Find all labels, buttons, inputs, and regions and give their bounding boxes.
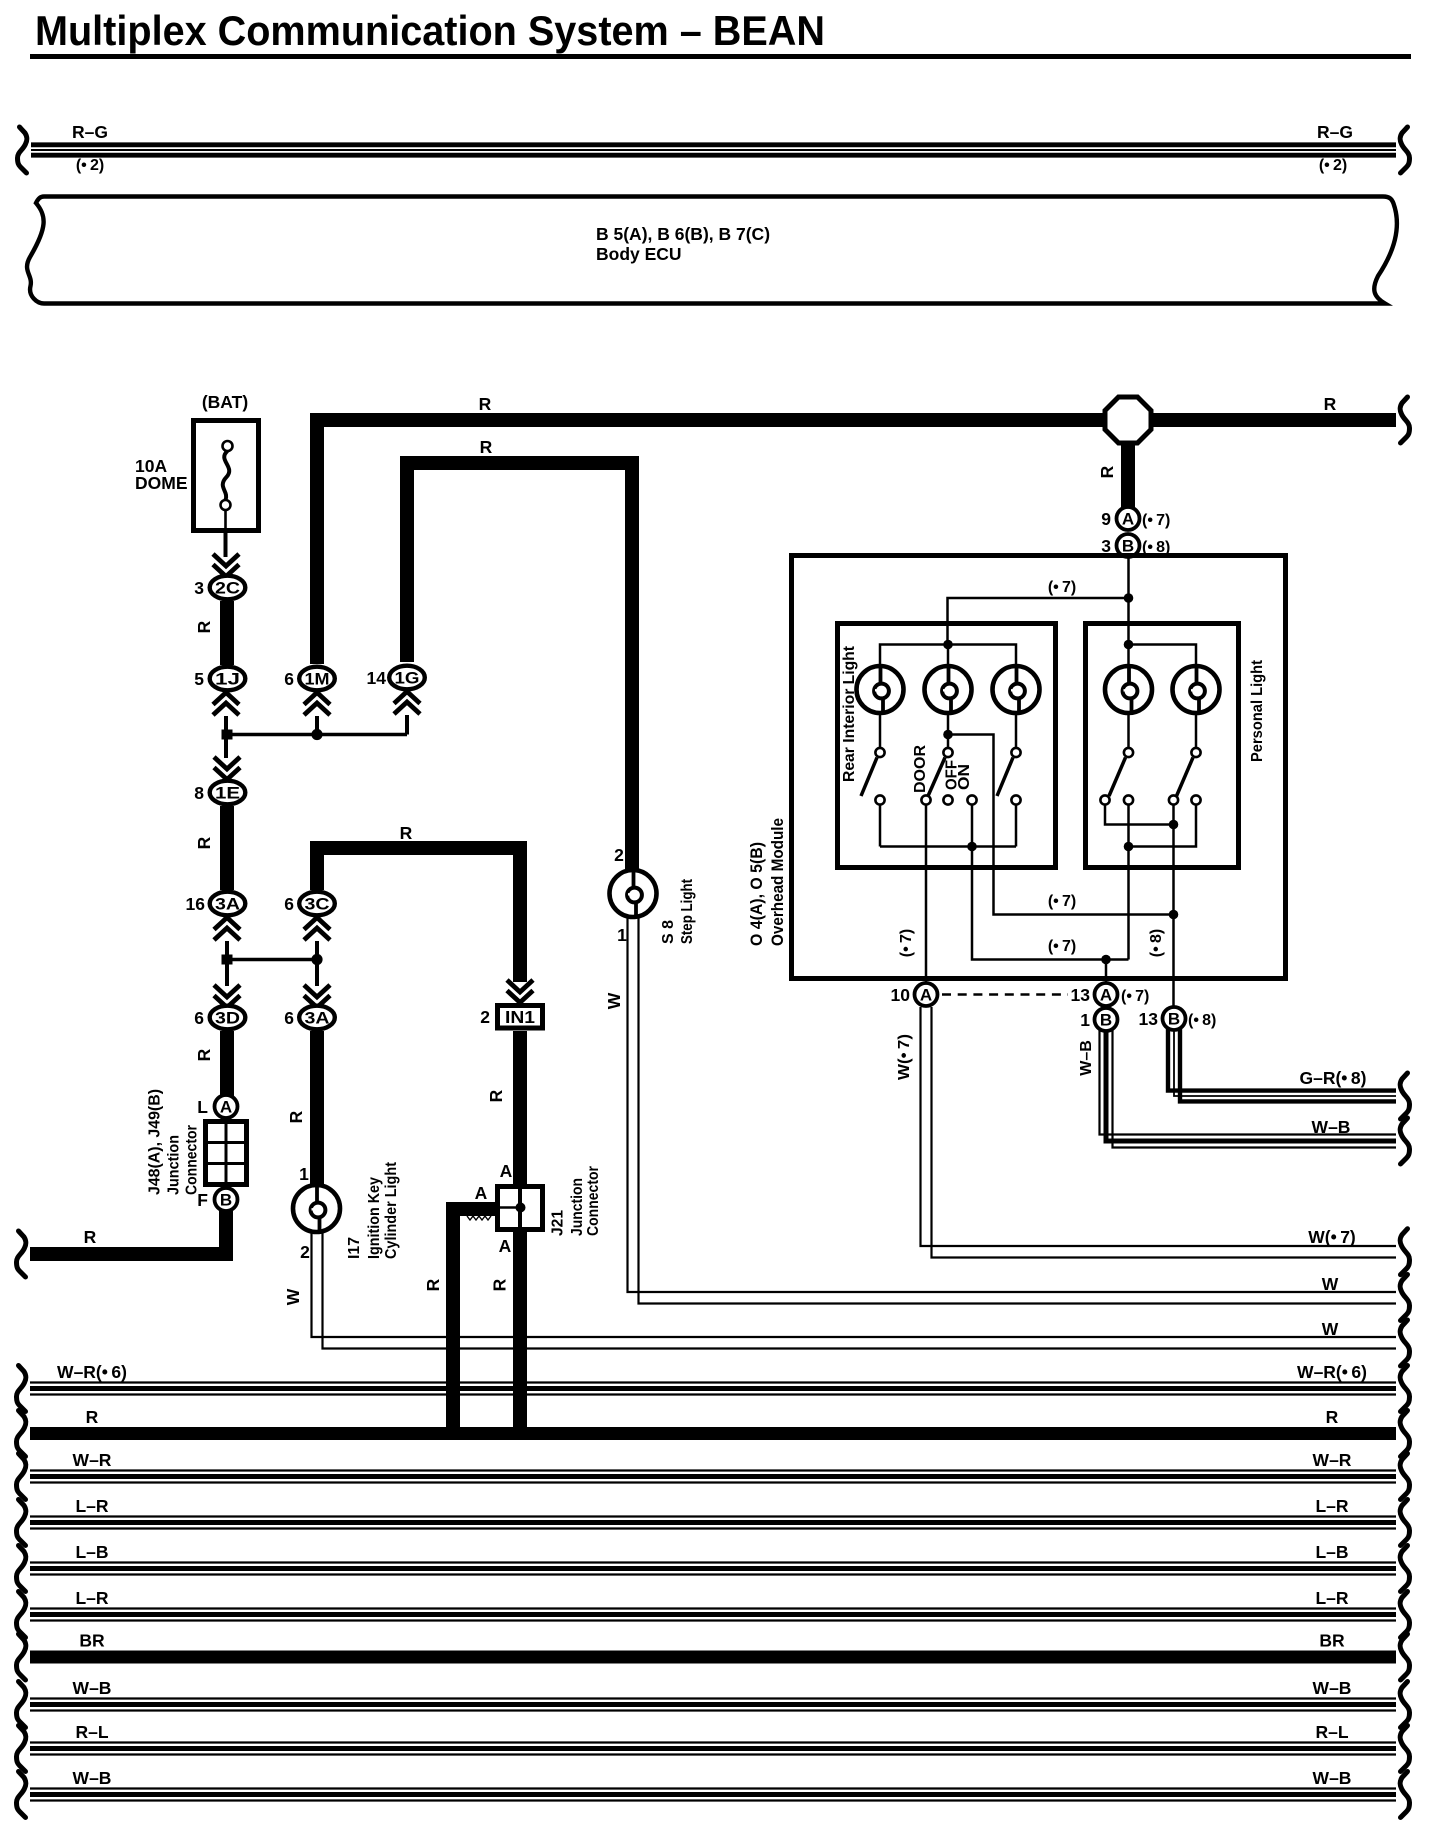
label Personal Light — [1249, 659, 1266, 762]
label O4(A), O5(B) Overhead Module — [747, 818, 787, 946]
break right W-B — [1400, 1118, 1409, 1164]
svg-text:B 5(A), B 6(B), B 7(C): B 5(A), B 6(B), B 7(C) — [596, 224, 770, 244]
pin label 14 — [367, 668, 387, 688]
pin label 13 (A) — [1071, 985, 1091, 1005]
svg-text:R: R — [194, 836, 214, 849]
wire (fuse to connector 2C) — [224, 533, 228, 557]
svg-text:O 4(A), O 5(B): O 4(A), O 5(B) — [747, 842, 766, 946]
label R rotated (J21 bottom wire) — [490, 1278, 510, 1291]
label W–B right — [1313, 1678, 1352, 1698]
pin label 3 (B) — [1101, 536, 1111, 556]
bus wire W–R(• 6) at y=1388.5 — [30, 1383, 1396, 1395]
connector 3A pin 16 — [210, 892, 246, 916]
svg-text:3A: 3A — [215, 895, 240, 914]
bus wire BR at y=1657.0 — [30, 1651, 1396, 1664]
svg-text:S 8: S 8 — [660, 920, 677, 944]
label W(.7) rotated — [896, 1034, 913, 1080]
svg-text:W–B: W–B — [1078, 1040, 1095, 1076]
svg-text:Rear Interior Light: Rear Interior Light — [841, 645, 858, 782]
bulb rear interior light 1 — [857, 666, 904, 713]
rear light top bus — [880, 645, 1016, 668]
wire R J21 bottom over buses (redraw) — [513, 1395, 527, 1440]
svg-text:R: R — [479, 394, 492, 414]
label R rotated (3D-J48) — [194, 1048, 214, 1061]
svg-text:IN1: IN1 — [505, 1007, 535, 1027]
label R rotated (IN1-J21) — [486, 1089, 506, 1102]
svg-text:1: 1 — [1080, 1010, 1090, 1030]
svg-text:10: 10 — [891, 985, 911, 1005]
pin label 6 (3C) — [284, 894, 294, 914]
wire R (3C up to IN1) — [317, 848, 520, 982]
svg-text:A: A — [500, 1161, 513, 1181]
wire (3C down to junction2) — [315, 941, 319, 960]
svg-text:J21: J21 — [549, 1210, 566, 1236]
wire R (3D to J48 junction connector A) — [220, 1031, 234, 1096]
pin label 6 — [284, 669, 294, 689]
wire bulb2 to switch — [947, 713, 950, 748]
label R rotated (1E-3A) — [194, 836, 214, 849]
wire R (octagon to connector 9A) — [1121, 441, 1135, 508]
label OFF — [944, 760, 961, 790]
svg-text:W–B: W–B — [1313, 1678, 1352, 1698]
break left of R bus — [17, 1411, 26, 1457]
svg-text:16: 16 — [186, 894, 206, 914]
svg-text:(• 2): (• 2) — [76, 157, 104, 174]
fuse 10A DOME — [194, 421, 259, 531]
junction dot (rear bottom bus) — [967, 842, 977, 852]
svg-text:I17: I17 — [346, 1237, 363, 1259]
label L–B right — [1315, 1542, 1348, 1562]
svg-text:W: W — [604, 992, 624, 1009]
svg-text:R–L: R–L — [75, 1722, 108, 1742]
bulb personal light 1 — [1105, 666, 1152, 713]
svg-text:L–R: L–R — [1315, 1496, 1348, 1516]
pin label 8 — [194, 783, 204, 803]
label R rotated (octagon wire) — [1097, 465, 1117, 478]
svg-text:DOME: DOME — [135, 473, 188, 493]
junction link wire 2 (3A/3C to 3D/3A) — [227, 958, 317, 962]
svg-text:(• 7): (• 7) — [1048, 893, 1076, 910]
wire (junction2 down to 3D) — [225, 964, 229, 986]
connector 1E pin 8 — [210, 781, 246, 805]
svg-text:R: R — [194, 1048, 214, 1061]
Rear Interior Light box — [838, 624, 1056, 868]
pin label 2 (S8) — [614, 845, 624, 865]
svg-text:13: 13 — [1071, 985, 1091, 1005]
connector 1J pin 5 — [210, 667, 246, 691]
pin label 13 (B) — [1139, 1009, 1159, 1029]
label S8 Step Light — [660, 878, 696, 944]
svg-text:R: R — [400, 823, 413, 843]
wire DOOR contact to connector 10A — [925, 805, 928, 985]
junction connector J48(A) J49(B) : terminal A — [215, 1095, 238, 1118]
switch rear 2 (DOOR/OFF/ON) — [921, 748, 976, 805]
label R-G right — [1317, 122, 1353, 142]
svg-text:R–G: R–G — [1317, 122, 1353, 142]
pin label 2 (I17) — [300, 1242, 310, 1262]
svg-text:(• 7): (• 7) — [1121, 988, 1149, 1005]
svg-text:G–R(• 8): G–R(• 8) — [1299, 1068, 1366, 1088]
break right of W–B bus — [1400, 1682, 1409, 1728]
wire personal bulb1 to switch — [1127, 713, 1130, 748]
terminal label L — [197, 1097, 208, 1117]
wire R (J21 bottom to R bus) — [513, 1232, 527, 1440]
personal light top bus — [1129, 645, 1197, 668]
break right of BR bus — [1400, 1634, 1409, 1680]
svg-text:BR: BR — [79, 1631, 105, 1651]
svg-text:14: 14 — [367, 668, 387, 688]
label W–R(• 6) right — [1297, 1362, 1367, 1382]
junction dot (at .8 drop) — [1169, 910, 1179, 920]
svg-text:Connector: Connector — [585, 1166, 602, 1236]
bulb rear interior light 2 — [925, 666, 972, 713]
svg-text:2: 2 — [300, 1242, 310, 1262]
connector 1M pin 6 — [299, 667, 335, 691]
switch rear 1 (door) — [861, 748, 885, 805]
svg-text:L: L — [197, 1097, 208, 1117]
svg-text:W: W — [1322, 1274, 1339, 1294]
svg-text:W(• 7): W(• 7) — [896, 1034, 913, 1080]
pin label 9 — [1101, 509, 1111, 529]
connector 1G pin 14 — [389, 666, 425, 690]
svg-text:(BAT): (BAT) — [202, 392, 248, 412]
label R (3C-IN1 wire) — [400, 823, 413, 843]
label R (top wire right) — [1324, 394, 1337, 414]
svg-text:3D: 3D — [215, 1009, 240, 1028]
svg-text:(• 7): (• 7) — [898, 929, 915, 957]
label W rotated (S8 wire) — [604, 992, 624, 1009]
wire W(.7) from 10A — [921, 1007, 1397, 1258]
svg-text:(• 8): (• 8) — [1188, 1012, 1216, 1029]
junction dot at 3C line — [311, 954, 322, 965]
svg-text:L–B: L–B — [1315, 1542, 1348, 1562]
arrow into 3C (from below) — [304, 918, 330, 941]
break symbol right of main R wire — [1400, 397, 1409, 443]
break right of L–R bus — [1400, 1592, 1409, 1638]
svg-text:(• 7): (• 7) — [1048, 938, 1076, 955]
stub wire to 13A — [1105, 960, 1108, 985]
arrow into 1E — [214, 757, 240, 780]
label W-B rotated — [1078, 1040, 1095, 1076]
pin label 5 — [194, 669, 204, 689]
connector IN1 pin 2 — [498, 1006, 543, 1029]
ECU O4(A) O5(B) Overhead Module box — [792, 556, 1286, 979]
wire G-R(.8) from 13B — [1168, 1029, 1396, 1101]
wire (.7) branch (top feed to rear interior light) — [948, 598, 1129, 645]
label (.2) right — [1319, 157, 1347, 174]
personal switched bus (to .8) — [1105, 805, 1174, 825]
wire R (3A lower to I17) — [310, 1031, 324, 1185]
arrow into 3D — [214, 985, 240, 1008]
label R–L left — [75, 1722, 108, 1742]
label R (top wire) — [479, 394, 492, 414]
svg-text:Ignition Key: Ignition Key — [366, 1177, 383, 1259]
wire R (1E to 3A) — [220, 806, 234, 890]
label (.7) rotated (DOOR wire) — [898, 929, 915, 957]
break right W(.7) — [1400, 1229, 1409, 1275]
switch rear 3 (door) — [997, 748, 1021, 805]
label R right — [1326, 1407, 1339, 1427]
svg-text:2C: 2C — [215, 579, 240, 598]
svg-text:B: B — [1122, 537, 1134, 556]
svg-text:R: R — [480, 437, 493, 457]
svg-text:A: A — [1122, 510, 1134, 529]
break symbol right of W bus (I17) — [1400, 1320, 1409, 1366]
bus wire L–R at y=1522.5 — [30, 1517, 1396, 1529]
connector 10 A — [915, 983, 938, 1006]
label W-B right — [1312, 1117, 1351, 1137]
svg-text:Connector: Connector — [183, 1125, 200, 1195]
break right of W–R(• 6) bus — [1400, 1366, 1409, 1412]
label L–R left — [75, 1588, 108, 1608]
svg-text:R: R — [1324, 394, 1337, 414]
lamp S8 Step Light — [610, 870, 657, 917]
label W right (S8 bus) — [1322, 1274, 1339, 1294]
wire (1G down to junction) — [405, 715, 409, 735]
wire bulb3 to switch — [1015, 713, 1018, 748]
bus wire L–B at y=1568.5 — [30, 1563, 1396, 1575]
svg-text:Junction: Junction — [569, 1178, 586, 1236]
svg-text:Junction: Junction — [165, 1135, 182, 1195]
label G-R(.8) right — [1299, 1068, 1366, 1088]
label L–B left — [75, 1542, 108, 1562]
svg-text:(• 8): (• 8) — [1148, 929, 1165, 957]
break symbol right of W bus (S8) — [1400, 1275, 1409, 1321]
break right of R–L bus — [1400, 1726, 1409, 1772]
wire (junction down to 1E) — [224, 739, 228, 758]
wire bulb1 to switch — [879, 713, 882, 748]
label (.8) at 13B — [1188, 1012, 1216, 1029]
label (.7) middle — [1048, 893, 1076, 910]
junction connector J48/J49 grid — [206, 1122, 247, 1185]
terminal label A (J21 bottom) — [499, 1236, 512, 1256]
label L–R right — [1315, 1496, 1348, 1516]
wire (.8) drop to 13B — [1172, 825, 1175, 1009]
label W(.7) right — [1308, 1227, 1356, 1247]
label 10A DOME — [135, 456, 188, 493]
bus wire W–R at y=1476.5 — [30, 1471, 1396, 1483]
svg-text:6: 6 — [194, 1008, 204, 1028]
junction link wire (1J/1M/1G) — [226, 733, 407, 737]
svg-text:6: 6 — [284, 669, 294, 689]
svg-text:R: R — [486, 1089, 506, 1102]
junction dot at 1M line — [311, 729, 322, 740]
svg-text:B: B — [1168, 1010, 1180, 1029]
wire R (2C to 1J) — [220, 601, 234, 665]
svg-text:R–L: R–L — [1315, 1722, 1348, 1742]
svg-text:R: R — [423, 1278, 443, 1291]
break right of W–B bus — [1400, 1772, 1409, 1818]
svg-text:6: 6 — [284, 894, 294, 914]
break right of R bus — [1400, 1411, 1409, 1457]
wire R-G bus (top, to page 2) — [31, 145, 1396, 155]
svg-text:A: A — [920, 986, 932, 1005]
label (.7) at 9A — [1142, 512, 1170, 529]
label R–L right — [1315, 1722, 1348, 1742]
connector A pin 9 — [1117, 507, 1140, 530]
break left of BR bus — [17, 1634, 26, 1680]
svg-text:1M: 1M — [305, 670, 330, 689]
svg-text:Overhead Module: Overhead Module — [768, 818, 787, 946]
connector 1 B — [1095, 1008, 1118, 1031]
junction connector J48/J49 : terminal B — [215, 1188, 238, 1211]
label (.7) at 13A — [1121, 988, 1149, 1005]
label ON — [956, 764, 973, 790]
pin label 3 — [194, 578, 204, 598]
svg-text:1G: 1G — [395, 669, 420, 688]
connector 3A pin 6 (lower) — [299, 1006, 335, 1030]
svg-text:3A: 3A — [305, 1009, 330, 1028]
break symbol left of R wire — [17, 1231, 26, 1277]
svg-text:R: R — [490, 1278, 510, 1291]
svg-text:3C: 3C — [305, 895, 330, 914]
wire R (left branch into J21) — [453, 1209, 495, 1440]
break left of L–B bus — [17, 1546, 26, 1592]
svg-text:(• 7): (• 7) — [1142, 512, 1170, 529]
label L–R right — [1315, 1588, 1348, 1608]
svg-text:W: W — [283, 1288, 303, 1305]
svg-text:Multiplex Communication System: Multiplex Communication System – BEAN — [35, 7, 825, 54]
svg-text:L–R: L–R — [1315, 1588, 1348, 1608]
connector 13 A (.7) — [1095, 983, 1118, 1006]
svg-text:R: R — [194, 620, 214, 633]
rear light bottom bus — [880, 805, 1016, 847]
label (.2) left — [76, 157, 104, 174]
arrow into 3A lower — [304, 985, 330, 1008]
label J48(A), J49(B) Junction Connector — [146, 1089, 200, 1195]
title: Multiplex Communication System - BEAN — [35, 7, 825, 54]
label (.8) at 3B — [1142, 539, 1170, 556]
wire W-B from 1B — [1100, 1030, 1397, 1148]
wire (3B feed into personal light) — [1127, 557, 1130, 667]
svg-text:W–R(• 6): W–R(• 6) — [57, 1362, 127, 1382]
svg-text:W(• 7): W(• 7) — [1308, 1227, 1356, 1247]
Body ECU block B5(A),B6(B),B7(C) — [27, 197, 1397, 304]
connector 2C pin 3 — [210, 576, 246, 600]
pin label 6 (3A lower) — [284, 1008, 294, 1028]
pin label 1 (B) — [1080, 1010, 1090, 1030]
break right of L–B bus — [1400, 1546, 1409, 1592]
svg-text:Personal Light: Personal Light — [1249, 659, 1266, 762]
svg-text:W–B: W–B — [73, 1768, 112, 1788]
break left of L–R bus — [17, 1592, 26, 1638]
svg-text:L–R: L–R — [75, 1588, 108, 1608]
pin label 16 — [186, 894, 206, 914]
label R left — [86, 1407, 99, 1427]
bulb personal light 2 — [1173, 666, 1220, 713]
connector 3C pin 6 — [299, 892, 335, 916]
svg-text:5: 5 — [194, 669, 204, 689]
arrow into 1M (from below) — [304, 693, 330, 716]
label W–R(• 6) left — [57, 1362, 127, 1382]
svg-text:13: 13 — [1139, 1009, 1159, 1029]
junction connector J21 — [498, 1187, 543, 1230]
pin label 10 — [891, 985, 911, 1005]
junction dot (rear bus) — [943, 640, 953, 650]
label (.7) lower — [1048, 938, 1076, 955]
label BR left — [79, 1631, 105, 1651]
wire R second (to 1G and S8 step light) — [407, 463, 632, 871]
wire rear bus to (.7) link — [972, 847, 1129, 960]
label DOOR — [912, 745, 929, 793]
junction octagon on main R wire — [1105, 397, 1151, 443]
junction dot (feed split) — [1124, 593, 1134, 603]
svg-text:B: B — [220, 1191, 232, 1210]
junction dot (personal bus) — [1124, 640, 1134, 650]
dashed link 10A to 13A — [942, 993, 1068, 996]
svg-text:DOOR: DOOR — [912, 745, 929, 793]
wire personal bulb2 to switch — [1195, 713, 1198, 748]
svg-text:R: R — [286, 1110, 306, 1123]
label (.7) top — [1048, 579, 1076, 596]
label W–B left — [73, 1768, 112, 1788]
svg-text:3: 3 — [194, 578, 204, 598]
wire R (J48 B to left break) — [30, 1211, 226, 1254]
label (.8) rotated — [1148, 929, 1165, 957]
svg-text:A: A — [475, 1183, 488, 1203]
svg-text:(• 2): (• 2) — [1319, 157, 1347, 174]
svg-text:R: R — [84, 1227, 97, 1247]
label R rotated (2C-1J) — [194, 620, 214, 633]
svg-text:A: A — [499, 1236, 512, 1256]
svg-text:A: A — [220, 1098, 232, 1117]
arrow into IN1 — [507, 980, 533, 1003]
terminal label A (J21 left) — [475, 1183, 488, 1203]
bus wire L–R at y=1614.5 — [30, 1609, 1396, 1621]
break left of L–R bus — [17, 1500, 26, 1546]
wire (1J down to junction) — [224, 716, 228, 735]
arrow into 1J (from below) — [213, 693, 239, 716]
wire R left branch over buses (redraw) — [446, 1395, 460, 1440]
bus wire R at y=1433.5 — [30, 1427, 1396, 1440]
bus wire W–B at y=1794.5 — [30, 1789, 1396, 1801]
junction dot (personal .8 bus) — [1169, 820, 1179, 830]
connector B pin 3 — [1117, 534, 1140, 557]
label W–R left — [73, 1450, 112, 1470]
Personal Light box — [1086, 624, 1239, 868]
break left of W–R bus — [17, 1454, 26, 1500]
break symbol left of R-G wire — [18, 127, 27, 173]
svg-text:BR: BR — [1319, 1631, 1345, 1651]
wire W (S8 to W bus) — [628, 917, 1397, 1304]
label L–R left — [75, 1496, 108, 1516]
arrow into 3A (from below) — [214, 918, 240, 941]
svg-text:W–B: W–B — [1312, 1117, 1351, 1137]
svg-text:R: R — [1326, 1407, 1339, 1427]
wire R main (battery feed, top horizontal to 1M and octagon) — [317, 420, 1396, 664]
svg-text:2: 2 — [614, 845, 624, 865]
pin label 1 (S8) — [617, 925, 627, 945]
terminal label A (J21 top) — [500, 1161, 513, 1181]
wire R (IN1 to J21) — [513, 1031, 527, 1185]
label R (bottom left wire) — [84, 1227, 97, 1247]
svg-text:2: 2 — [480, 1007, 490, 1027]
label W–B right — [1313, 1768, 1352, 1788]
arrow into 1G (from below) — [394, 692, 420, 715]
title underline — [30, 54, 1411, 59]
svg-text:9: 9 — [1101, 509, 1111, 529]
svg-text:ON: ON — [956, 764, 973, 790]
break left of W–R(• 6) bus — [17, 1366, 26, 1412]
svg-text:6: 6 — [284, 1008, 294, 1028]
wire (junction2 down to 3A lower) — [315, 964, 319, 986]
label J21 Junction Connector — [549, 1166, 602, 1236]
bus wire R–L at y=1748.5 — [30, 1743, 1396, 1755]
wire W (I17 to W bus) — [312, 1233, 1397, 1349]
connector 13 B (.8) — [1163, 1007, 1186, 1030]
lamp I17 Ignition Key Cylinder Light — [293, 1185, 340, 1232]
terminal label F — [197, 1190, 208, 1210]
